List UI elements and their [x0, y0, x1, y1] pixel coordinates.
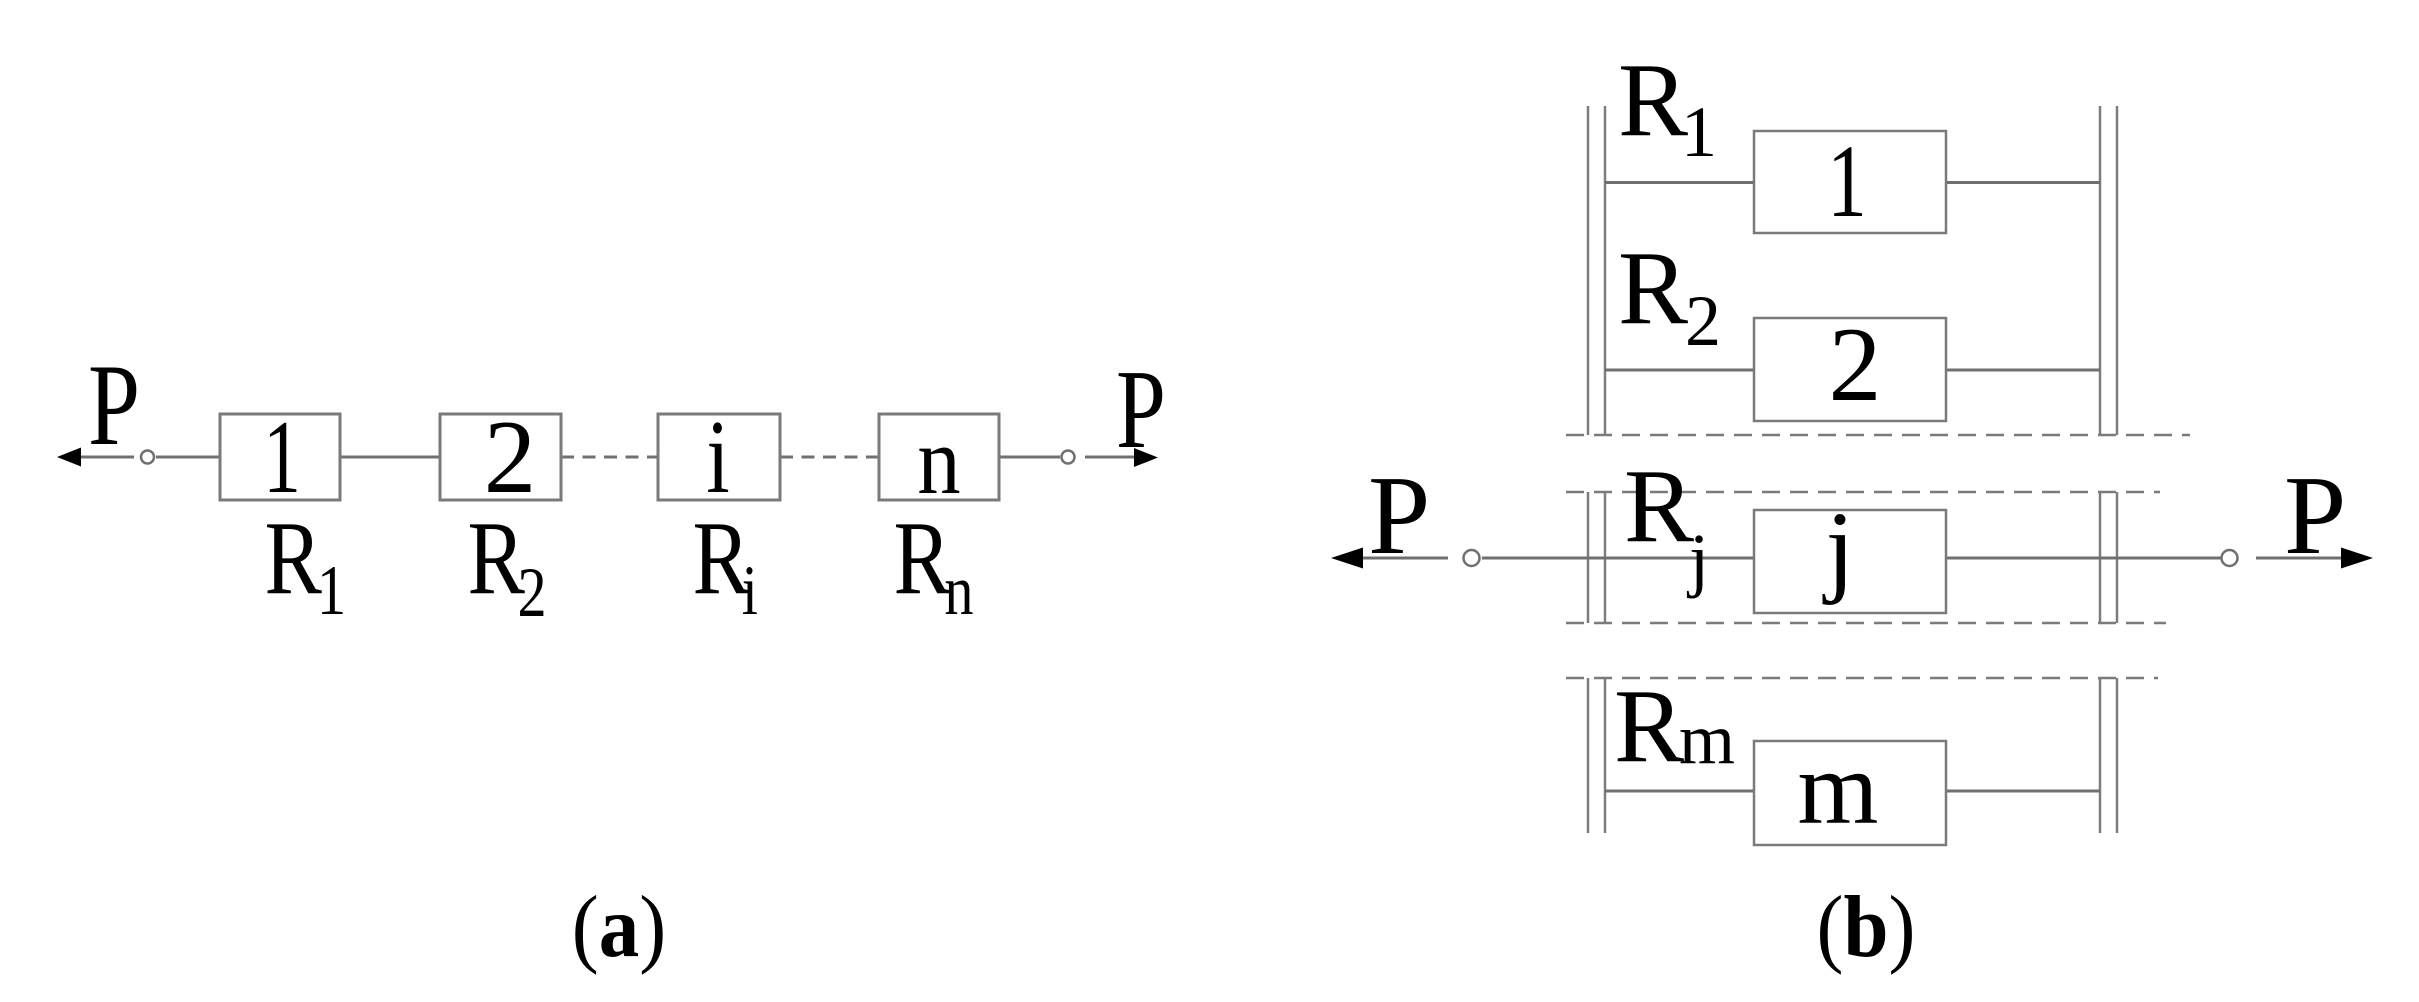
- svg-text:1: 1: [317, 552, 346, 631]
- svg-text:m: m: [1679, 699, 1735, 779]
- svg-text:n: n: [944, 552, 973, 631]
- svg-text:(b): (b): [1817, 879, 1916, 976]
- svg-text:(a): (a): [572, 879, 666, 976]
- svg-text:R: R: [1618, 229, 1688, 346]
- svg-text:P: P: [1368, 454, 1430, 578]
- svg-text:2: 2: [1829, 306, 1882, 423]
- svg-text:P: P: [1116, 348, 1166, 472]
- svg-text:i: i: [706, 398, 729, 515]
- svg-text:P: P: [88, 340, 140, 469]
- svg-text:R: R: [894, 499, 951, 616]
- svg-text:2: 2: [1685, 281, 1721, 361]
- svg-text:2: 2: [518, 554, 547, 633]
- svg-text:1: 1: [1827, 124, 1867, 239]
- svg-text:2: 2: [484, 398, 537, 515]
- svg-text:R: R: [1618, 41, 1688, 158]
- svg-text:R: R: [468, 499, 525, 616]
- svg-text:R: R: [1624, 447, 1694, 564]
- svg-text:P: P: [2284, 454, 2346, 578]
- svg-text:j: j: [1686, 519, 1709, 599]
- svg-text:m: m: [1798, 731, 1879, 846]
- svg-text:1: 1: [263, 398, 301, 515]
- svg-text:R: R: [1614, 667, 1684, 784]
- svg-text:1: 1: [1681, 92, 1717, 172]
- svg-text:R: R: [265, 499, 322, 616]
- svg-text:j: j: [1823, 491, 1855, 606]
- svg-text:i: i: [742, 552, 758, 631]
